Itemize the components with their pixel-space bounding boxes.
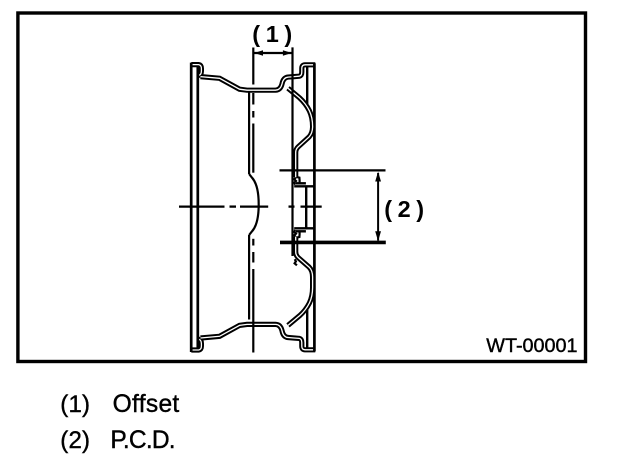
svg-text:(1): (1)	[252, 21, 298, 47]
pad top kink zigzag	[295, 149, 297, 155]
svg-text:(2): (2)	[60, 427, 90, 454]
left rim inner vertical line	[196, 66, 199, 209]
svg-text:WT-00001: WT-00001	[486, 335, 577, 357]
rim sheet-metal double lines: white core	[191, 65, 315, 91]
PCD top line	[280, 169, 386, 171]
left rim outer vertical line	[190, 63, 193, 208]
dimension (2) top arrowhead	[375, 172, 381, 182]
mounting face extension line x=292.5	[291, 47, 293, 256]
disc center vertical line lower	[248, 235, 250, 320]
rim barrel (bead seat, well, hump, outboard bead) sheet	[201, 65, 316, 90]
disc center bulge arc	[249, 174, 259, 235]
figure frame border	[18, 13, 586, 362]
dimension (1) left arrowhead	[254, 50, 263, 56]
rim sheet-metal double lines: black band	[191, 65, 315, 91]
svg-text:Offset: Offset	[113, 391, 180, 418]
bolt boss short step line	[296, 182, 306, 184]
dimension (1) right arrowhead	[283, 50, 292, 56]
hub rectangle top horizontal	[294, 185, 314, 187]
bolt boss zigzag	[294, 177, 299, 185]
dimension (2) bottom arrowhead	[375, 231, 381, 241]
svg-text:(1): (1)	[60, 391, 90, 418]
disc center vertical line upper	[248, 93, 250, 175]
wheel cross-section: symmetric half (mirrored about y=206.65)	[191, 63, 315, 208]
inboard (left) flange cap sheet	[191, 65, 201, 76]
hub rectangle left vertical	[305, 186, 307, 208]
svg-text:(2): (2)	[384, 196, 430, 222]
dimension (2) vertical arrow	[377, 173, 379, 241]
disc face S-curve sheet (upper)	[288, 88, 313, 325]
PCD bottom line (thicker)	[280, 241, 386, 245]
right outboard vertical line	[313, 63, 316, 208]
S-curve white cores	[288, 88, 313, 325]
right flange inner lip vertical	[306, 66, 308, 107]
dimension (1) offset arrow line	[253, 52, 292, 54]
vertical wheel centerline (dash-dot) x=253.3	[252, 48, 254, 353]
single-stroke structure lines	[191, 63, 314, 208]
horizontal wheel centerline (dash-dot) y=206.6	[179, 205, 322, 207]
svg-text:P.C.D.: P.C.D.	[110, 427, 174, 454]
mirrored bottom half of wheel	[191, 207, 315, 352]
